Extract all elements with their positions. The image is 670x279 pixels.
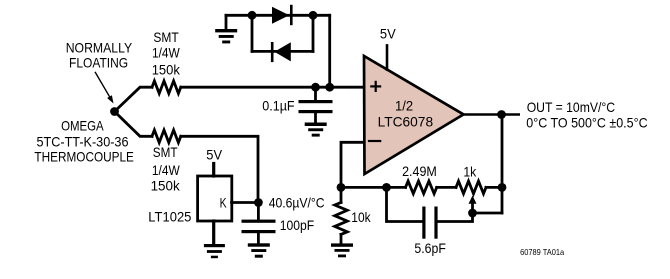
resistor R2 150k (lower) [152, 130, 181, 143]
svg-text:K: K [220, 195, 227, 211]
wire thermocouple + lead diagonal [115, 87, 153, 111]
node output [497, 110, 506, 119]
node feedback right [498, 183, 507, 192]
wire diode network top rail [226, 14, 330, 17]
wire feedback rail left [341, 186, 406, 189]
capacitor C3 5.6pF [422, 207, 437, 239]
node wiper [468, 209, 477, 218]
wire diode loop bottom [252, 50, 313, 53]
wire 5V stub to op-amp [386, 45, 389, 69]
diode D2 (bottom, pointing left) [271, 42, 291, 62]
wire diode network to + input [328, 15, 331, 87]
wire thermocouple - lead diagonal [115, 112, 153, 137]
svg-text:OMEGA: OMEGA [61, 118, 104, 134]
svg-text:5TC-TT-K-30-36: 5TC-TT-K-30-36 [37, 133, 129, 149]
ground below 10k [331, 243, 353, 257]
svg-text:SMT: SMT [153, 29, 179, 45]
resistor R4 2.49M [406, 181, 437, 194]
wire R1 to op-amp + input [181, 86, 364, 89]
svg-text:1/4W: 1/4W [152, 45, 180, 61]
resistor R1 150k (upper) [152, 81, 181, 94]
wire cap branch down [387, 187, 422, 221]
node diode junction on + wire [325, 83, 334, 92]
svg-text:1/2: 1/2 [395, 97, 413, 113]
ground below C2 [248, 243, 270, 257]
wire output feedback vertical [501, 115, 504, 214]
svg-text:0.1µF: 0.1µF [262, 98, 294, 114]
label OUT equation [526, 99, 647, 131]
svg-text:LT1025: LT1025 [148, 209, 191, 225]
svg-text:THERMOCOUPLE: THERMOCOUPLE [34, 149, 133, 165]
label SMT 1/4W 150k (upper) [152, 29, 181, 78]
node thermocouple junction [110, 107, 119, 116]
wire output [464, 113, 519, 115]
svg-text:5V: 5V [380, 25, 396, 41]
label SMT 1/4W 150k (lower) [151, 144, 181, 193]
svg-text:60789 TA01a: 60789 TA01a [520, 247, 564, 257]
svg-text:2.49M: 2.49M [402, 163, 437, 179]
diode D1 (top, pointing right) [272, 5, 293, 25]
annotation arrow to junction [95, 72, 113, 103]
ground diode network left [215, 29, 237, 43]
node cap branch [382, 183, 391, 192]
svg-text:5V: 5V [206, 146, 222, 162]
node feedback left [337, 183, 346, 192]
wire diode loop left [251, 15, 254, 51]
wire LT1025 ground stub [212, 221, 215, 244]
svg-text:10k: 10k [351, 209, 371, 225]
ground LT1025 [204, 244, 225, 258]
svg-text:NORMALLY: NORMALLY [66, 40, 133, 56]
wire C3 to wiper node [438, 213, 473, 222]
svg-text:1k: 1k [463, 163, 477, 179]
wire to left ground [225, 15, 228, 28]
wiper arrow of R5 [469, 196, 477, 214]
svg-text:40.6µV/°C: 40.6µV/°C [269, 194, 325, 210]
svg-text:FLOATING: FLOATING [69, 55, 128, 71]
svg-text:1/4W: 1/4W [152, 162, 180, 178]
wire between R4 and R5 [437, 186, 456, 189]
svg-text:5.6pF: 5.6pF [414, 240, 446, 256]
svg-text:0°C TO 500°C ±0.5°C: 0°C TO 500°C ±0.5°C [526, 115, 647, 131]
wire R2 to LT1025 K node [181, 136, 258, 202]
pin - symbol [369, 140, 380, 142]
node K output [254, 198, 263, 207]
svg-text:150k: 150k [151, 177, 181, 193]
IC LT1025 box [198, 176, 232, 221]
svg-text:SMT: SMT [153, 144, 178, 160]
ground below C1 [305, 123, 327, 137]
wire K output [232, 201, 259, 204]
label NORMALLY FLOATING [66, 40, 133, 71]
capacitor C2 100pF [242, 203, 276, 243]
svg-text:OUT = 10mV/°C: OUT = 10mV/°C [527, 99, 615, 115]
resistor R5 1k trim [456, 181, 486, 194]
svg-text:100pF: 100pF [280, 217, 314, 233]
node diode right [309, 11, 318, 20]
pin + symbol [371, 82, 380, 91]
wire - input [341, 142, 364, 187]
wire wiper to output vertical [473, 212, 503, 215]
node cap junction [311, 83, 320, 92]
label OMEGA thermocouple [34, 118, 133, 165]
node diode left [248, 11, 257, 20]
svg-text:LTC6078: LTC6078 [378, 113, 434, 129]
wire diode loop right [312, 15, 315, 51]
svg-text:150k: 150k [152, 62, 181, 78]
wire R5 to output node [486, 186, 502, 189]
resistor R3 10k [335, 187, 348, 243]
op-amp U1 LTC6078 [364, 56, 464, 174]
capacitor C1 0.1uF [299, 87, 333, 122]
wire 5V stub to LT1025 [212, 164, 215, 177]
